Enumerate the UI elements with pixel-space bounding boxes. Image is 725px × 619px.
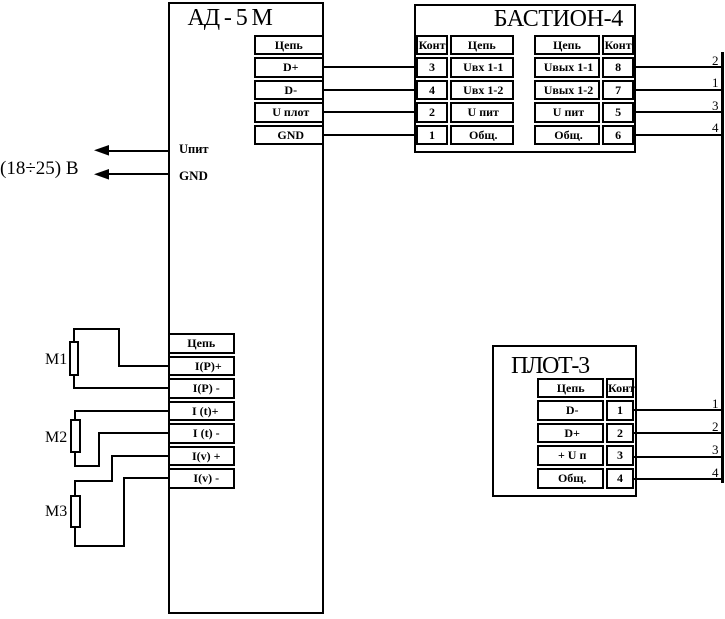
BASTION-4 left table Цепь cell Цепь	[450, 35, 515, 56]
wire M3 top run	[74, 480, 113, 482]
device PLOT-3 outline	[492, 345, 637, 497]
AD-5M upper table cell GND	[254, 125, 324, 146]
PLOT-3 table Конт cell 1	[606, 400, 634, 421]
PLOT-3 table Цепь cell Цепь	[537, 378, 604, 399]
BASTION-4 right table Конт cell 8	[602, 57, 634, 78]
AD-5M lower table cell I(P) -	[168, 378, 235, 399]
BASTION-4 left table Конт cell 4	[416, 80, 448, 101]
wire M2 to I (t)+	[74, 410, 169, 412]
BASTION-4 left table Конт cell 3	[416, 57, 448, 78]
arrowhead Uпит	[94, 145, 110, 156]
sensor M1	[69, 341, 79, 376]
BASTION-4 left table Цепь cell Uвх 1-2	[450, 80, 515, 101]
wire M3 top riser	[111, 455, 113, 482]
wire M1 top run	[73, 328, 120, 330]
cable bus (right edge)	[721, 52, 724, 483]
AD-5M upper table cell Цепь	[254, 35, 324, 56]
wire M3 bottom run	[74, 545, 124, 547]
BASTION-4 right table Конт cell 7	[602, 80, 634, 101]
wire PLOT-3 pin 3 to bus (cable lead 3)	[633, 456, 722, 458]
AD-5M lower table cell I (t)+	[168, 401, 235, 422]
wire M2 to I (t) -	[98, 432, 169, 434]
BASTION-4 left table Конт cell 2	[416, 102, 448, 123]
BASTION-4 right table Цепь cell Общ.	[534, 125, 601, 146]
wire PLOT-3 pin 4 to bus (cable lead 4)	[633, 478, 722, 480]
wire BASTION pin 8 to bus (cable lead 2)	[633, 66, 722, 68]
AD-5M lower table cell I (t) -	[168, 423, 235, 444]
PLOT-3 table Конт cell 3	[606, 445, 634, 466]
device BASTION-4 outline	[414, 4, 636, 153]
wire M2 bottom run	[74, 465, 99, 467]
device AD-5M outline	[168, 2, 324, 614]
wire number label 2 (top group)	[679, 54, 719, 67]
AD-5M lower table cell I(v) -	[168, 468, 235, 489]
wire D- to BASTION	[322, 89, 415, 91]
arrowhead GND	[94, 169, 110, 180]
wire number label 3 (bottom group)	[679, 443, 719, 456]
value label (18÷25) В	[0, 159, 79, 178]
BASTION-4 right table Цепь cell Uвых 1-2	[534, 80, 601, 101]
sensor M2	[70, 419, 81, 453]
wire Uпит supply	[108, 150, 168, 152]
BASTION-4 left table Цепь cell Общ.	[450, 125, 515, 146]
device PLOT-3 title	[511, 354, 589, 378]
AD-5M upper table cell U плот	[254, 102, 324, 123]
pin label Uпит	[179, 143, 209, 156]
wire M3 bottom lead (down)	[74, 527, 76, 547]
wire M1 top drop	[118, 328, 120, 366]
wire M2 bottom riser	[98, 432, 100, 466]
PLOT-3 table Конт cell 2	[606, 423, 634, 444]
AD-5M lower table cell Цепь	[168, 333, 235, 354]
AD-5M lower table cell I(P)+	[168, 356, 235, 377]
wire BASTION pin 7 to bus (cable lead 1)	[633, 89, 722, 91]
PLOT-3 table Цепь cell Общ.	[537, 468, 604, 489]
wire number label 4 (top group)	[679, 121, 719, 134]
wire BASTION pin 6 to bus (cable lead 4)	[633, 134, 722, 136]
wire M1 bottom lead (down)	[73, 376, 75, 389]
wire number label 1 (top group)	[679, 76, 719, 89]
sensor label М3	[45, 504, 67, 520]
PLOT-3 table Конт cell Конт	[606, 378, 634, 399]
sensor M3	[70, 495, 80, 527]
pin label GND	[179, 169, 208, 182]
wire M1 to I(P)-	[73, 387, 169, 389]
wire number label 4 (bottom group)	[679, 466, 719, 479]
PLOT-3 table Цепь cell D+	[537, 423, 604, 444]
BASTION-4 right table Конт cell Конт	[602, 35, 634, 56]
device BASTION-4 title	[494, 7, 623, 31]
AD-5M lower table cell I(v) +	[168, 446, 235, 467]
wire M3 to I(v) +	[111, 455, 169, 457]
PLOT-3 table Цепь cell D-	[537, 400, 604, 421]
device AD-5M title	[188, 6, 272, 30]
wire U плот to BASTION	[322, 111, 415, 113]
wire D+ to BASTION	[322, 66, 415, 68]
AD-5M upper table cell D+	[254, 57, 324, 78]
wire GND supply	[108, 173, 168, 175]
wire number label 2 (bottom group)	[679, 420, 719, 433]
wire M3 bottom riser	[123, 477, 125, 546]
wire M1 to I(P)+	[118, 365, 169, 367]
PLOT-3 table Цепь cell + U п	[537, 445, 604, 466]
wire M3 top lead (up)	[74, 480, 76, 496]
BASTION-4 left table Цепь cell Uвх 1-1	[450, 57, 515, 78]
wire M2 top lead (up)	[74, 410, 76, 420]
wire M2 bottom lead (down)	[74, 452, 76, 466]
wire number label 1 (bottom group)	[679, 397, 719, 410]
BASTION-4 left table Конт cell Конт	[416, 35, 448, 56]
BASTION-4 left table Цепь cell U пит	[450, 102, 515, 123]
BASTION-4 left table Конт cell 1	[416, 125, 448, 146]
BASTION-4 right table Цепь cell Цепь	[534, 35, 601, 56]
wire number label 3 (top group)	[679, 99, 719, 112]
sensor label М1	[45, 352, 67, 368]
BASTION-4 right table Конт cell 6	[602, 125, 634, 146]
wire M1 top lead (up)	[73, 328, 75, 343]
BASTION-4 right table Цепь cell Uвых 1-1	[534, 57, 601, 78]
BASTION-4 right table Конт cell 5	[602, 102, 634, 123]
sensor label М2	[45, 430, 67, 446]
AD-5M upper table cell D-	[254, 80, 324, 101]
wire PLOT-3 pin 1 to bus (cable lead 1)	[633, 409, 722, 411]
wire BASTION pin 5 to bus (cable lead 3)	[633, 111, 722, 113]
PLOT-3 table Конт cell 4	[606, 468, 634, 489]
BASTION-4 right table Цепь cell U пит	[534, 102, 601, 123]
wire GND to BASTION	[322, 134, 415, 136]
wire PLOT-3 pin 2 to bus (cable lead 2)	[633, 432, 722, 434]
wire M3 to I(v) -	[123, 477, 170, 479]
